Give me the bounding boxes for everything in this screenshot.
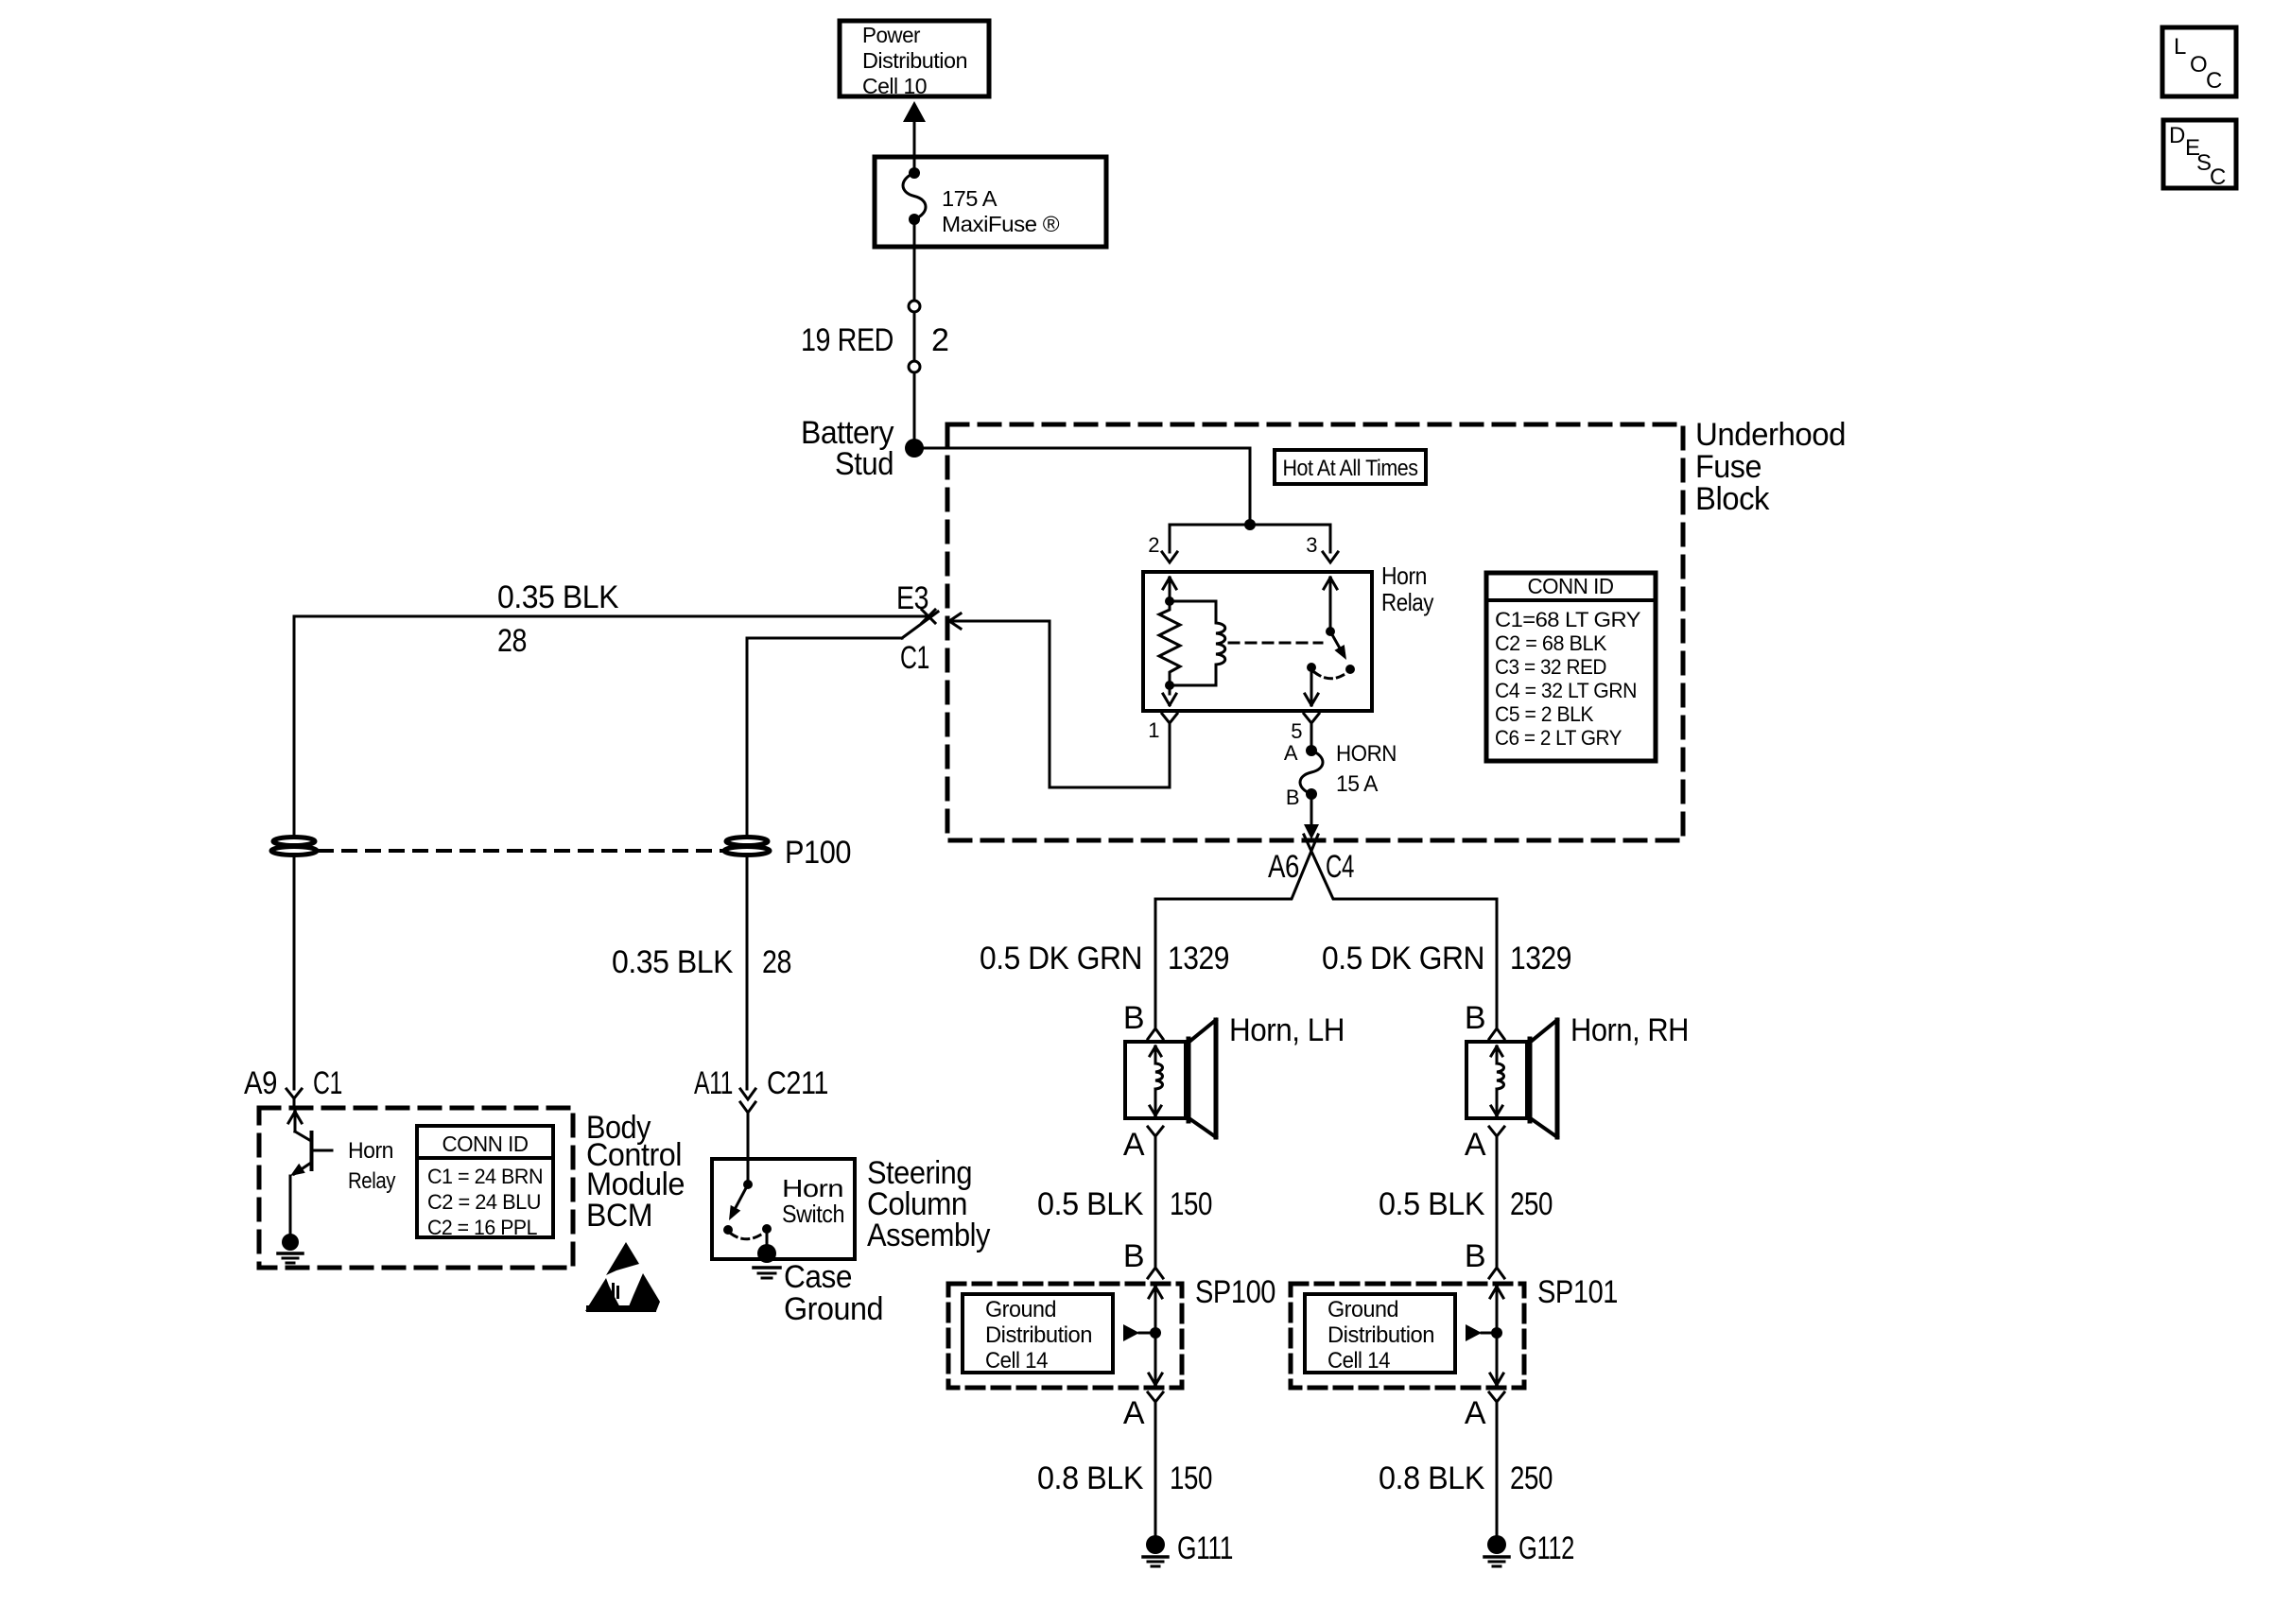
svg-text:0.5 DK GRN: 0.5 DK GRN bbox=[980, 941, 1142, 976]
svg-text:SP100: SP100 bbox=[1195, 1274, 1275, 1310]
svg-text:Horn, RH: Horn, RH bbox=[1570, 1012, 1689, 1048]
svg-text:Case: Case bbox=[784, 1259, 852, 1295]
svg-text:1329: 1329 bbox=[1168, 941, 1229, 976]
svg-text:CONN ID: CONN ID bbox=[1528, 574, 1614, 598]
svg-text:0.8 BLK: 0.8 BLK bbox=[1037, 1460, 1144, 1496]
svg-text:Horn: Horn bbox=[782, 1174, 843, 1202]
svg-text:C2 = 16 PPL: C2 = 16 PPL bbox=[427, 1216, 537, 1239]
svg-text:150: 150 bbox=[1170, 1460, 1212, 1496]
svg-text:1329: 1329 bbox=[1510, 941, 1571, 976]
svg-text:BCM: BCM bbox=[586, 1198, 652, 1234]
svg-text:0.8 BLK: 0.8 BLK bbox=[1379, 1460, 1485, 1496]
svg-text:B: B bbox=[1123, 1238, 1144, 1274]
svg-text:Distribution: Distribution bbox=[862, 48, 967, 73]
svg-text:5: 5 bbox=[1291, 719, 1302, 743]
svg-text:C2 = 68 BLK: C2 = 68 BLK bbox=[1495, 631, 1607, 655]
svg-text:A: A bbox=[1123, 1127, 1145, 1163]
svg-text:P100: P100 bbox=[785, 835, 851, 871]
svg-text:E3: E3 bbox=[896, 580, 928, 616]
svg-text:250: 250 bbox=[1510, 1186, 1553, 1222]
svg-text:A6: A6 bbox=[1268, 849, 1299, 885]
svg-text:C2 = 24 BLU: C2 = 24 BLU bbox=[427, 1190, 541, 1214]
svg-text:C1: C1 bbox=[313, 1065, 342, 1101]
svg-text:A9: A9 bbox=[244, 1065, 277, 1101]
svg-text:O: O bbox=[2190, 52, 2207, 78]
svg-text:15 A: 15 A bbox=[1336, 771, 1378, 797]
svg-text:C4: C4 bbox=[1326, 849, 1354, 885]
svg-text:Horn: Horn bbox=[348, 1138, 393, 1164]
svg-text:HORN: HORN bbox=[1336, 741, 1397, 767]
svg-text:G111: G111 bbox=[1177, 1530, 1233, 1566]
svg-text:C5 = 2 BLK: C5 = 2 BLK bbox=[1495, 702, 1594, 726]
svg-text:SP101: SP101 bbox=[1537, 1274, 1618, 1310]
svg-text:C4 = 32 LT GRN: C4 = 32 LT GRN bbox=[1495, 679, 1637, 702]
svg-text:175 A: 175 A bbox=[942, 186, 998, 211]
svg-text:28: 28 bbox=[497, 623, 527, 659]
svg-text:Switch: Switch bbox=[782, 1200, 844, 1228]
svg-text:L: L bbox=[2174, 34, 2186, 60]
svg-text:G112: G112 bbox=[1518, 1530, 1574, 1566]
svg-text:A11: A11 bbox=[694, 1065, 733, 1101]
svg-text:Fuse: Fuse bbox=[1695, 449, 1761, 485]
svg-text:B: B bbox=[1286, 786, 1299, 809]
svg-text:C: C bbox=[2206, 68, 2222, 94]
svg-text:0.5 BLK: 0.5 BLK bbox=[1379, 1186, 1485, 1222]
svg-text:B: B bbox=[1465, 1238, 1485, 1274]
svg-text:A: A bbox=[1465, 1127, 1486, 1163]
svg-text:Cell 10: Cell 10 bbox=[862, 74, 927, 98]
svg-text:B: B bbox=[1123, 1000, 1144, 1036]
svg-text:Stud: Stud bbox=[835, 446, 894, 482]
svg-text:Cell 14: Cell 14 bbox=[985, 1348, 1048, 1373]
svg-text:1: 1 bbox=[1148, 718, 1159, 742]
svg-text:19 RED: 19 RED bbox=[801, 322, 894, 358]
svg-text:C211: C211 bbox=[767, 1065, 828, 1101]
svg-text:2: 2 bbox=[931, 322, 948, 358]
svg-text:C: C bbox=[2210, 164, 2226, 190]
svg-text:Ground: Ground bbox=[784, 1291, 883, 1327]
svg-text:150: 150 bbox=[1170, 1186, 1212, 1222]
svg-text:A: A bbox=[1284, 741, 1298, 765]
svg-text:0.35 BLK: 0.35 BLK bbox=[612, 944, 734, 980]
svg-text:A: A bbox=[1465, 1395, 1486, 1431]
svg-text:250: 250 bbox=[1510, 1460, 1553, 1496]
svg-text:28: 28 bbox=[762, 944, 791, 980]
svg-text:Power: Power bbox=[862, 23, 921, 47]
svg-text:Ground: Ground bbox=[985, 1297, 1056, 1322]
svg-text:Distribution: Distribution bbox=[1327, 1322, 1434, 1348]
svg-text:0.35 BLK: 0.35 BLK bbox=[497, 579, 619, 615]
svg-text:D: D bbox=[2169, 123, 2185, 148]
svg-text:Relay: Relay bbox=[1381, 588, 1433, 616]
svg-text:Block: Block bbox=[1695, 481, 1770, 517]
svg-text:A: A bbox=[1123, 1395, 1145, 1431]
svg-text:CONN ID: CONN ID bbox=[442, 1132, 529, 1156]
svg-text:B: B bbox=[1465, 1000, 1485, 1036]
svg-text:Hot At All Times: Hot At All Times bbox=[1283, 456, 1418, 481]
svg-text:3: 3 bbox=[1306, 533, 1317, 557]
svg-text:0.5 BLK: 0.5 BLK bbox=[1037, 1186, 1144, 1222]
svg-text:Relay: Relay bbox=[348, 1168, 395, 1194]
svg-text:Underhood: Underhood bbox=[1695, 417, 1846, 453]
svg-text:MaxiFuse ®: MaxiFuse ® bbox=[942, 212, 1060, 236]
svg-text:Cell 14: Cell 14 bbox=[1327, 1348, 1390, 1373]
svg-text:Ground: Ground bbox=[1327, 1297, 1398, 1322]
svg-text:2: 2 bbox=[1148, 533, 1159, 557]
svg-text:C1 = 24 BRN: C1 = 24 BRN bbox=[427, 1165, 543, 1188]
svg-text:Horn: Horn bbox=[1381, 561, 1427, 590]
svg-text:0.5 DK GRN: 0.5 DK GRN bbox=[1322, 941, 1484, 976]
svg-text:C1: C1 bbox=[900, 640, 929, 676]
svg-text:Horn, LH: Horn, LH bbox=[1229, 1012, 1345, 1048]
svg-text:C3 = 32 RED: C3 = 32 RED bbox=[1495, 655, 1606, 679]
svg-text:Distribution: Distribution bbox=[985, 1322, 1092, 1348]
svg-text:C6 = 2 LT GRY: C6 = 2 LT GRY bbox=[1495, 726, 1622, 750]
svg-text:Assembly: Assembly bbox=[867, 1218, 990, 1253]
svg-text:C1=68 LT GRY: C1=68 LT GRY bbox=[1495, 608, 1641, 631]
